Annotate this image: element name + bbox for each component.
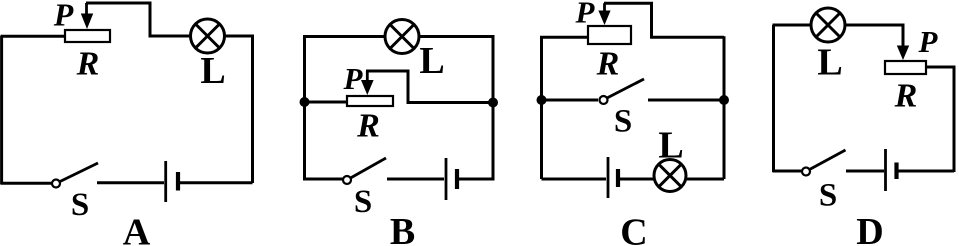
slider arrow P of R, A: [81, 3, 93, 29]
svg-text:S: S: [819, 178, 837, 214]
wire switch-to-node C: [648, 99, 724, 102]
slider arrow P of R, C: [598, 3, 610, 25]
node (junction dot) left B: [300, 97, 310, 107]
wire top-left D: [773, 24, 812, 27]
wire left vertical D: [772, 25, 775, 172]
wire lamp-to-right C: [686, 178, 724, 181]
wire slider-to-node B: [366, 71, 491, 103]
svg-text:B: B: [390, 211, 415, 246]
wire slider-over-top C: [604, 3, 724, 37]
svg-text:P: P: [575, 0, 596, 30]
lamp L (C): [654, 160, 686, 192]
switch S (D): [802, 150, 846, 176]
wire bottom-left C: [542, 178, 607, 181]
wire node-to-switch C: [542, 99, 599, 102]
resistor R (rheostat) C: [588, 26, 631, 44]
svg-text:R: R: [76, 46, 100, 83]
svg-text:S: S: [71, 187, 89, 223]
svg-text:P: P: [343, 61, 364, 96]
wire battery-to-right B: [459, 178, 493, 181]
battery B: [446, 158, 457, 200]
wire lamp-to-right A: [225, 36, 253, 183]
wire bottom-right A: [180, 181, 253, 184]
wire bottom-right D: [898, 170, 954, 173]
svg-text:P: P: [53, 0, 74, 33]
svg-text:P: P: [918, 24, 939, 59]
switch S (B): [343, 158, 386, 184]
svg-text:A: A: [123, 212, 151, 246]
lamp L (B): [385, 20, 419, 54]
resistor R (rheostat) D: [885, 61, 926, 74]
wire bottom-left B: [305, 178, 344, 181]
svg-text:L: L: [200, 50, 225, 92]
slider arrow P of R, B: [361, 71, 374, 95]
wire battery-to-switch D: [846, 170, 884, 173]
node (junction dot) left C: [537, 95, 547, 105]
lamp L (A): [191, 19, 225, 53]
wire left vertical B: [303, 37, 306, 181]
wire left vertical C: [540, 37, 543, 179]
wire resistor-to-right D: [926, 67, 954, 172]
wire top-left B: [303, 35, 385, 38]
svg-text:L: L: [419, 40, 444, 82]
svg-text:S: S: [614, 104, 632, 140]
resistor R (rheostat) A: [65, 30, 110, 42]
svg-text:R: R: [596, 46, 620, 83]
svg-text:L: L: [817, 42, 842, 84]
svg-text:L: L: [658, 125, 683, 167]
wire left vertical A: [0, 36, 3, 184]
battery C: [608, 157, 618, 198]
wire switch-to-battery B: [387, 178, 444, 181]
wire node-to-resistor B: [305, 101, 349, 104]
slider arrow P of R, D: [897, 25, 909, 60]
battery A: [166, 161, 178, 202]
switch S (C): [600, 79, 645, 104]
resistor R (rheostat) B: [347, 96, 393, 106]
svg-text:S: S: [354, 184, 372, 220]
svg-text:R: R: [356, 108, 380, 145]
wire battery-to-lamp C: [620, 178, 655, 181]
battery D: [886, 149, 897, 191]
node (junction dot) right C: [719, 95, 729, 105]
lamp L (D): [811, 8, 845, 42]
svg-text:D: D: [856, 211, 883, 246]
wire switch-to-left D: [773, 170, 802, 173]
wire switch-to-left A: [1, 182, 53, 185]
wire battery-to-switch A: [97, 181, 164, 184]
wire slider-to-lamp A: [86, 3, 190, 36]
wire right vertical C: [723, 36, 726, 179]
wire lamp-to-right B: [419, 37, 493, 181]
switch S (A): [52, 163, 98, 188]
wire top-left A: [1, 35, 66, 38]
wire lamp-to-slider D: [845, 25, 903, 46]
wire top-left C: [540, 36, 589, 39]
svg-text:C: C: [620, 212, 647, 246]
svg-text:R: R: [894, 78, 918, 115]
node (junction dot) right B: [488, 98, 498, 108]
